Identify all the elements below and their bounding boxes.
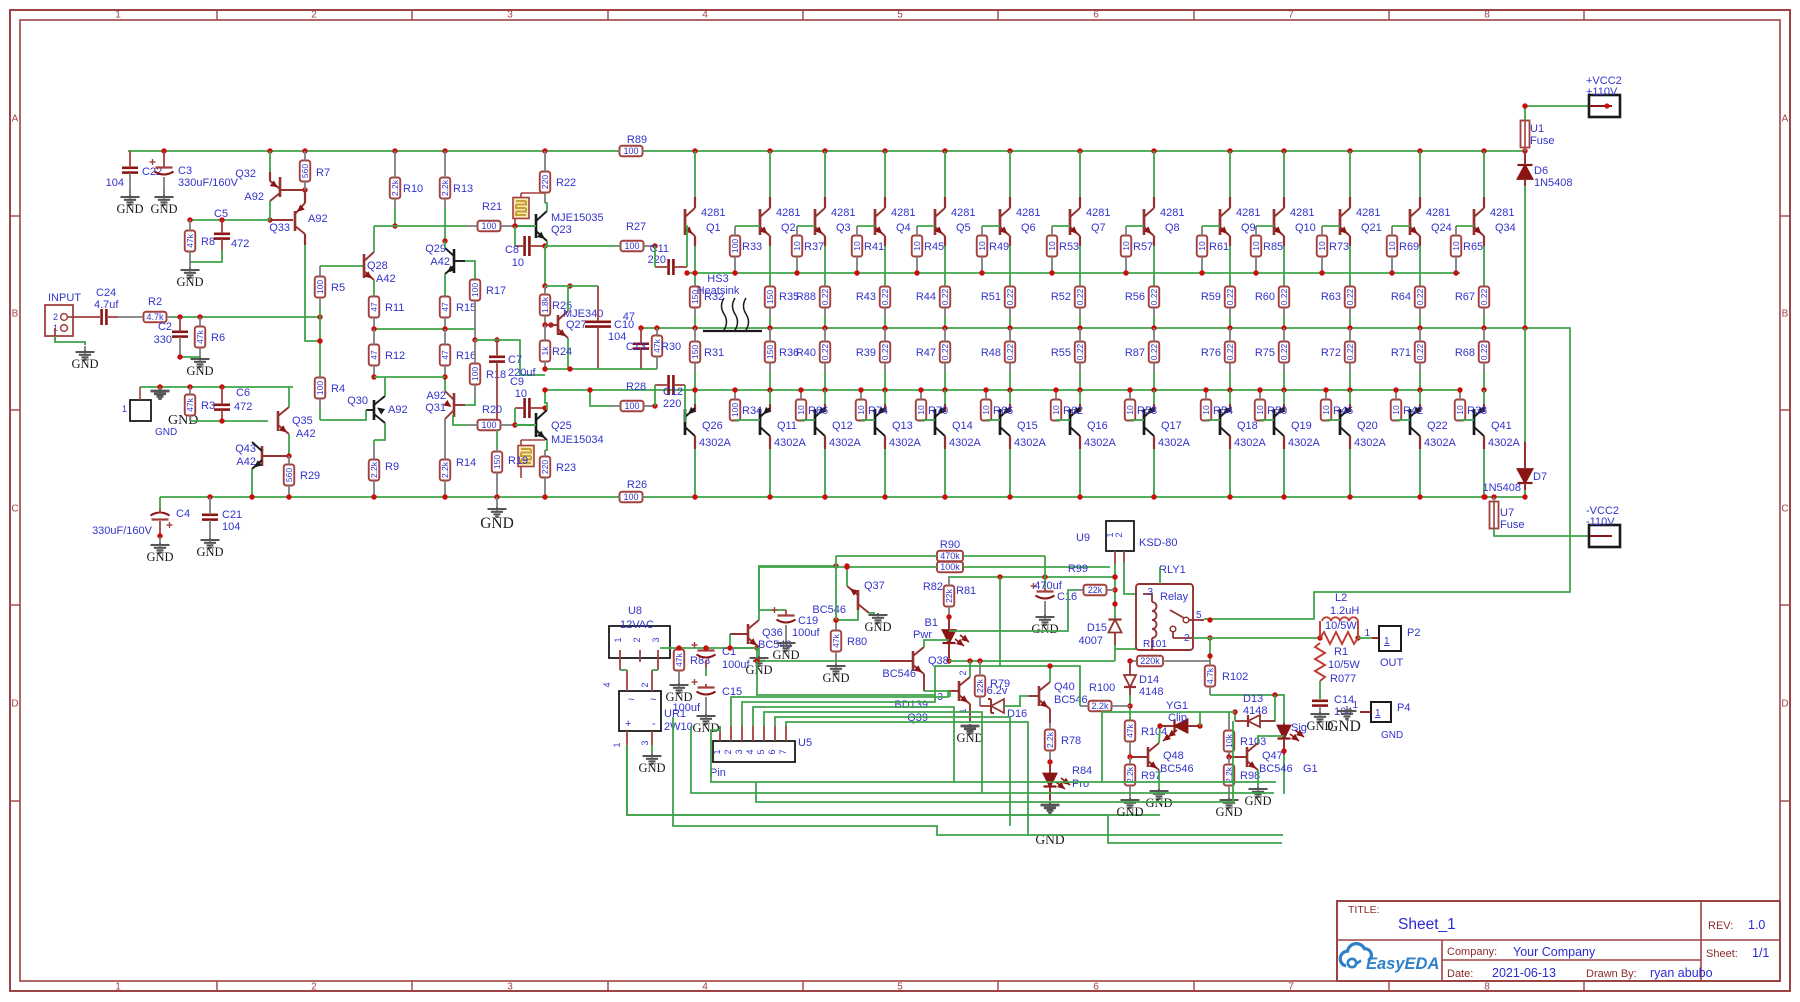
resistor R38 [1455,390,1487,421]
svg-text:4302A: 4302A [889,437,921,449]
svg-text:P2: P2 [1407,627,1420,639]
junction at 270,151 [267,148,272,153]
junction at 757,661 [754,658,759,663]
wire Q31 c [444,377,446,391]
svg-text:7: 7 [778,749,788,754]
wire Q30 c [384,377,386,396]
junction at 801,390 [798,387,803,392]
resistor R60 [1255,287,1289,318]
svg-text:ryan abubo: ryan abubo [1650,966,1713,980]
resistor R6 [195,317,225,357]
svg-text:150: 150 [492,455,502,469]
wire stub Q2 collector [769,197,771,208]
resistor R2 [118,296,172,322]
svg-text:220: 220 [663,398,681,410]
ground Q39 [956,724,983,745]
svg-text:D: D [1781,699,1788,710]
svg-text:0.22: 0.22 [940,288,950,305]
svg-text:GND: GND [1145,796,1172,810]
wire -rail bottom [160,496,1525,498]
svg-text:0.22: 0.22 [820,288,830,305]
transistor Q33 A92 [269,190,327,234]
svg-text:2: 2 [958,670,968,675]
wire stub Q1 collector [694,197,696,208]
svg-text:R54: R54 [1213,405,1233,417]
wire stub Q15 collector [1009,436,1011,449]
wire R13 to node [444,208,446,241]
svg-text:A92: A92 [308,213,328,225]
svg-text:A: A [12,114,19,125]
svg-text:R100: R100 [1089,682,1115,694]
svg-text:A92: A92 [388,404,408,416]
svg-text:R24: R24 [552,346,572,358]
resistor R11 [369,297,405,330]
wire D13 right [1261,695,1275,721]
svg-text:R39: R39 [856,347,876,359]
resistor R88 [796,287,830,318]
resistor R79 [975,661,1010,706]
title label [1348,904,1380,916]
junction at 825,151 [822,148,827,153]
resistor R29 [284,456,320,497]
wire R5 node [319,307,321,378]
svg-text:R53: R53 [1059,241,1079,253]
svg-text:1: 1 [712,749,722,754]
svg-text:1: 1 [1384,636,1390,647]
resistor R33 [730,226,762,273]
svg-text:BC546: BC546 [1160,763,1194,775]
wire collector Q20 [1349,449,1351,497]
svg-text:R7: R7 [316,167,330,179]
svg-text:1: 1 [1375,708,1381,719]
resistor R70 [916,390,948,421]
svg-text:R19: R19 [508,455,528,467]
svg-text:R88: R88 [796,291,816,303]
ground label P1 [155,413,198,438]
wire stub Q20 emitter [1349,404,1351,412]
svg-text:R37: R37 [804,241,824,253]
transistor Q32 A92 [235,168,303,203]
resistor R1 10/5W [1320,632,1358,658]
junction at 1256,273 [1253,270,1258,275]
wire collector Q3 [824,151,826,197]
resistor R75 [1255,328,1289,372]
svg-text:4302A: 4302A [1014,437,1046,449]
svg-text:0.22: 0.22 [880,343,890,360]
resistor R73 [1317,226,1349,273]
svg-text:2: 2 [311,982,317,993]
wire collector Q1 [694,151,696,197]
wire Q32 emitter [269,151,271,172]
svg-text:GND: GND [745,663,772,677]
svg-text:4302A: 4302A [1354,437,1386,449]
svg-text:Sig: Sig [1291,722,1307,734]
svg-text:-: - [652,718,656,730]
svg-text:2.2k: 2.2k [390,179,400,196]
svg-text:BC546: BC546 [882,668,916,680]
wire stub Q21 emitter [1349,236,1351,246]
resistor R3 [185,387,215,421]
svg-text:U5: U5 [798,737,812,749]
transistor Q47 BC546 [1229,743,1293,775]
wire Q47 e [1257,770,1259,786]
svg-text:Q13: Q13 [892,420,913,432]
svg-text:R76: R76 [1201,347,1221,359]
svg-text:R28: R28 [626,381,646,393]
svg-text:Sheet_1: Sheet_1 [1398,916,1456,933]
resistor R23 [540,450,576,497]
svg-text:Q22: Q22 [1427,420,1448,432]
wire R35 to mid rail [769,317,771,328]
svg-text:0.22: 0.22 [1415,288,1425,305]
svg-text:472: 472 [231,238,249,250]
junction at 1010,151 [1007,148,1012,153]
wire emitter Q34 [1483,246,1485,287]
svg-text:U7: U7 [1500,507,1514,519]
resistor R19 [492,447,528,497]
svg-text:Q28: Q28 [367,260,388,272]
svg-text:2: 2 [640,682,650,687]
svg-text:R14: R14 [456,457,476,469]
svg-text:~: ~ [628,694,634,706]
wire stub Q13 emitter [884,404,886,412]
junction at 1284,151 [1281,148,1286,153]
svg-text:104: 104 [222,521,240,533]
svg-text:Q31: Q31 [425,402,446,414]
connector P2 OUT [1364,626,1420,669]
wire stub Q7 collector [1079,197,1081,208]
wire Q23 collector [545,203,547,211]
wire R21 left [374,225,467,227]
svg-text:Q7: Q7 [1091,222,1106,234]
wire stub Q24 emitter [1419,236,1421,246]
wire emitter Q15 [1009,390,1011,404]
svg-text:A42: A42 [236,456,256,468]
svg-text:6: 6 [1093,10,1099,21]
svg-text:Relay: Relay [1160,591,1189,603]
svg-text:R5: R5 [331,282,345,294]
junction at 1284,328 [1281,325,1286,330]
svg-text:Q21: Q21 [1361,222,1382,234]
resistor R68 [1455,328,1489,372]
svg-text:Sheet:: Sheet: [1706,948,1738,960]
harness wrap y793 [691,726,1274,793]
wire emitter Q20 [1349,390,1351,404]
junction at 1115,604 [1112,601,1117,606]
svg-text:47: 47 [440,350,450,360]
svg-text:5: 5 [1196,610,1202,621]
svg-text:4302A: 4302A [1488,437,1520,449]
junction at 730,648 [727,645,732,650]
svg-text:Q43: Q43 [235,443,256,455]
junction at 1320,638 [1317,635,1322,640]
svg-text:D13: D13 [1243,693,1263,705]
svg-text:R62: R62 [1063,405,1083,417]
svg-text:R2: R2 [148,296,162,308]
wire collector Q22 [1419,449,1421,497]
svg-text:Q33: Q33 [269,222,290,234]
resistor R63 [1321,287,1355,318]
wire Q27 c [567,286,569,311]
svg-text:22k: 22k [944,588,954,602]
transistor Q27 MJE340 [545,308,603,338]
LED B1 Pwr [913,617,969,658]
wire emitter Q2 [769,246,771,287]
junction at 1160,726 [1157,723,1162,728]
svg-text:B1: B1 [925,617,938,629]
svg-text:R29: R29 [300,470,320,482]
wire mirror mid [374,328,475,330]
junction at 445,497 [442,494,447,499]
svg-text:8: 8 [1484,982,1490,993]
wire r30 join [641,368,657,370]
junction at 735,273 [732,270,737,275]
wire stub Q21 collector [1349,197,1351,208]
svg-text:R33: R33 [742,241,762,253]
svg-text:R71: R71 [1391,347,1411,359]
svg-text:10: 10 [977,241,987,251]
svg-text:47k: 47k [831,633,841,647]
wire R39 to pnp rail [884,372,886,390]
svg-text:5: 5 [897,10,903,21]
svg-text:C6: C6 [236,387,250,399]
junction at 190,387 [187,384,192,389]
inductor L2 1.2uH [1320,592,1359,638]
svg-text:GND: GND [176,275,203,289]
resistor R4 [315,378,345,409]
junction at 1052,273 [1049,270,1054,275]
junction at 1010,390 [1007,387,1012,392]
svg-text:R68: R68 [1455,347,1475,359]
junction at 590,390 [587,387,592,392]
svg-text:0.22: 0.22 [1279,288,1289,305]
junction at 374,329 [371,326,376,331]
wire emitter Q8 [1153,246,1155,287]
svg-text:100: 100 [315,381,325,395]
junction at 1420,390 [1417,387,1422,392]
wire U8 to UR1 b [652,669,658,671]
wire -VCC2 feed [1494,529,1589,536]
svg-text:4281: 4281 [1236,207,1260,219]
junction at 1326,390 [1323,387,1328,392]
svg-text:100: 100 [481,221,496,231]
svg-text:GND: GND [638,761,665,775]
svg-text:100k: 100k [940,562,960,572]
resistor R16 [440,329,476,377]
svg-text:4302A: 4302A [1288,437,1320,449]
transistor Q18 4302A [1220,407,1266,449]
svg-text:D7: D7 [1533,471,1547,483]
svg-text:C8: C8 [505,244,519,256]
capacitor C12 [655,375,685,410]
wire R59 to mid rail [1229,317,1231,328]
harness q38 drop [757,661,935,695]
svg-text:R80: R80 [847,636,867,648]
transistor Q35 A42 [278,407,316,440]
resistor R12 [369,329,405,377]
wire stub Q1 emitter [694,236,696,246]
svg-text:0.22: 0.22 [820,343,830,360]
svg-text:R56: R56 [1125,291,1145,303]
svg-text:R41: R41 [864,241,884,253]
svg-text:Q10: Q10 [1295,222,1316,234]
junction at 1210,638 [1207,635,1212,640]
transistor Q34 4281 [1474,207,1516,236]
thermistor RT2 [518,440,545,478]
wire Q36 e gnd [758,647,760,655]
wire stub Q14 emitter [944,404,946,412]
capacitor C3 [150,151,239,197]
junction at 949,661 [946,658,951,663]
transistor Q25 MJE15034 [515,410,604,446]
resistor R37 [792,226,824,273]
svg-text:10: 10 [981,405,991,415]
LED R84 Pro [1044,762,1093,800]
svg-text:Heatsink: Heatsink [697,285,740,297]
wire R32 to mid rail [694,317,696,328]
wire stub Q2 emitter [769,236,771,246]
svg-text:GND: GND [1327,718,1361,735]
resistor R39 [856,328,890,372]
svg-text:A42: A42 [376,273,396,285]
svg-text:Q12: Q12 [832,420,853,432]
diode D15 4007 [1079,619,1122,647]
svg-text:3: 3 [734,749,744,754]
svg-text:R72: R72 [1321,347,1341,359]
svg-text:5: 5 [756,749,766,754]
junction at 770,497 [767,494,772,499]
wire R40 to pnp rail [824,372,826,390]
svg-text:HS3: HS3 [707,273,728,285]
svg-text:100: 100 [730,239,740,253]
capacitor C10 [585,286,634,369]
svg-text:10: 10 [856,405,866,415]
svg-text:2.2k: 2.2k [369,461,379,478]
svg-text:10/5W: 10/5W [1328,659,1360,671]
wire x1000 riser [999,577,1001,666]
junction at 445,377 [442,374,447,379]
capacitor C2 [154,317,188,357]
wire collector Q2 [769,151,771,197]
svg-text:R8: R8 [201,236,215,248]
junction at 160,387 [157,384,162,389]
svg-text:47k: 47k [1125,723,1135,737]
junction at 1525,151 [1522,148,1527,153]
junction at 374,497 [371,494,376,499]
junction at 980,661 [977,658,982,663]
svg-text:0.22: 0.22 [880,288,890,305]
wire stub Q20 collector [1349,436,1351,449]
wire R44 to mid rail [944,317,946,328]
svg-text:22k: 22k [1088,585,1103,595]
junction at 847,567 [844,564,849,569]
wire R077 to C14 [1319,681,1321,699]
wire U9 pin2 to relay3 [1124,562,1136,594]
junction at 945,151 [942,148,947,153]
svg-text:0.22: 0.22 [1225,288,1235,305]
svg-text:R31: R31 [704,347,724,359]
wire R68 to pnp rail [1483,372,1485,390]
resistor R26 [617,479,647,502]
wire collector Q11 [769,449,771,497]
svg-text:R3: R3 [201,400,215,412]
resistor R24 [540,325,572,369]
wire Sig down [1283,755,1285,794]
svg-text:Q48: Q48 [1163,750,1184,762]
junction at 289,497 [286,494,291,499]
svg-text:100: 100 [470,283,480,297]
svg-text:Q29: Q29 [425,243,446,255]
svg-text:4302A: 4302A [1084,437,1116,449]
svg-text:R60: R60 [1255,291,1275,303]
svg-text:47k: 47k [674,652,684,666]
wire +VCC2 feed [1525,106,1589,120]
wire R76 to pnp rail [1229,372,1231,390]
wire Q37 base [836,610,858,620]
svg-text:0.22: 0.22 [1415,343,1425,360]
junction at 222,387 [219,384,224,389]
junction at 445,241 [442,238,447,243]
svg-text:2: 2 [53,312,58,322]
junction at 1484,151 [1481,148,1486,153]
wire R36 to pnp rail [769,372,771,390]
svg-text:4302A: 4302A [949,437,981,449]
LED YG1 Clip [1160,700,1200,741]
junction at 320,341 [317,338,322,343]
wire R60 to mid rail [1283,317,1285,328]
wire collector Q15 [1009,449,1011,497]
wire R28 left [590,390,611,406]
junction at 1494,497 [1491,494,1496,499]
svg-text:A42: A42 [430,256,450,268]
wire stub Q19 collector [1283,436,1285,449]
junction at 180,357 [177,354,182,359]
svg-text:10: 10 [1391,405,1401,415]
svg-text:+110V: +110V [1586,86,1618,98]
svg-text:12VAC: 12VAC [620,619,654,631]
svg-text:Q35: Q35 [292,415,313,427]
wire Q38 e to Q39 base [924,690,948,692]
svg-text:R69: R69 [1399,241,1419,253]
svg-text:10: 10 [1125,405,1135,415]
junction at 770,151 [767,148,772,153]
svg-text:2021-06-13: 2021-06-13 [1492,966,1556,980]
svg-text:150: 150 [765,345,775,359]
svg-text:560: 560 [284,468,294,482]
resistor R15 [440,297,476,330]
svg-text:330uF/160V: 330uF/160V [92,525,153,537]
harness pin5 drop [764,712,982,793]
junction at 695,151 [692,148,697,153]
transistor Q37 BC546 [812,580,884,616]
transistor Q28 A42 [364,252,396,285]
resistor R74 [856,390,888,421]
junction at 1484,328 [1481,325,1486,330]
wire pnp base rail [545,389,1460,391]
ground UR1 [638,752,665,775]
svg-text:R102: R102 [1222,671,1248,683]
wire collector Q13 [884,449,886,497]
wire stub Q26 emitter [694,404,696,412]
resistor R62 [1051,390,1083,421]
svg-text:R1: R1 [1334,646,1348,658]
svg-text:D: D [11,699,18,710]
wire emitter Q12 [824,390,826,404]
wire Q38 collector [924,640,949,647]
svg-text:R17: R17 [486,285,506,297]
wire R67 to mid rail [1483,317,1485,328]
junction at 825,390 [822,387,827,392]
